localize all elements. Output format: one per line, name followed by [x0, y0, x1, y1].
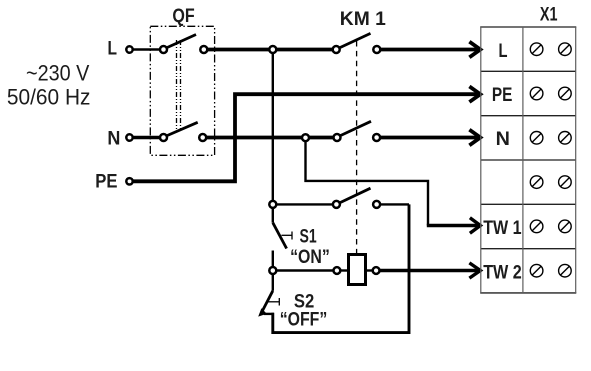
wire junction to aux contact	[276, 203, 335, 205]
breaker QF dash-dot enclosure	[150, 26, 214, 155]
breaker QF pole 2 pivot	[160, 134, 167, 141]
coil KM1 left pin	[334, 267, 341, 274]
wire N branch to TW1	[306, 141, 429, 226]
breaker QF pole 1 blade	[165, 35, 196, 49]
contactor KM1 aux pivot	[333, 201, 340, 208]
contactor KM1 main contact L blade	[338, 33, 371, 48]
junction node S1 aux	[269, 201, 276, 208]
svg-text:S1: S1	[300, 225, 317, 247]
wire L terminal to QF	[132, 48, 161, 50]
wire N terminal to QF	[132, 136, 161, 139]
terminal block X1 frame	[480, 27, 576, 293]
svg-text:N: N	[496, 128, 510, 150]
wire aux contact branch	[380, 203, 409, 205]
wire coil to X1 terminal TW2 with arrow	[380, 269, 479, 272]
breaker QF pole 2 contact	[199, 134, 206, 141]
svg-text:KM 1: KM 1	[340, 8, 386, 30]
wire QF to KM1 (N)	[206, 136, 335, 140]
screw terminals row TW2	[530, 264, 571, 277]
svg-text:TW 1: TW 1	[483, 217, 522, 239]
screw terminals row PE	[530, 87, 571, 100]
contactor KM1 linkage dashed line	[356, 41, 358, 255]
wire L feeder down from junction	[272, 51, 274, 203]
screw terminals row N	[530, 132, 571, 145]
pushbutton S2 seat	[264, 313, 274, 315]
contactor KM1 main contact N blade	[339, 121, 372, 136]
screw terminals row L	[530, 43, 571, 56]
wire junction to coil KM1	[276, 269, 334, 271]
coil KM1 right pin	[373, 267, 380, 274]
terminal circle PE	[126, 178, 132, 184]
screw terminals row 4	[530, 176, 571, 189]
svg-text:PE: PE	[492, 84, 513, 106]
svg-text:L: L	[499, 40, 508, 62]
terminal circle N	[126, 134, 132, 140]
pushbutton S2 actuator	[267, 301, 279, 303]
contactor KM1 aux contact blade	[339, 188, 371, 203]
pushbutton S2 blade tip barb	[258, 308, 267, 316]
contactor KM1 aux throw	[373, 201, 380, 208]
junction node coil branch	[269, 267, 276, 274]
contactor KM1 contact L pivot	[333, 46, 340, 53]
svg-text:50/60 Hz: 50/60 Hz	[7, 85, 91, 110]
wire KM1 to X1 terminal N with arrow	[381, 136, 479, 140]
wire QF to KM1 (L)	[207, 48, 334, 52]
junction node N to TW1 branch	[302, 134, 309, 141]
svg-text:L: L	[108, 38, 118, 60]
breaker QF pole 1 contact	[200, 46, 207, 53]
pushbutton S1 actuator	[282, 234, 293, 236]
breaker QF pole 1 pivot	[160, 46, 167, 53]
pushbutton S1 bottom lead	[272, 251, 274, 269]
breaker QF mechanical linkage	[176, 40, 178, 130]
screw terminals row TW1	[530, 220, 571, 233]
junction node L feeder	[269, 46, 276, 53]
wire PE to X1 terminal PE with arrow	[133, 94, 479, 181]
svg-text:N: N	[107, 127, 120, 149]
pushbutton S2 top lead	[272, 272, 274, 291]
contactor KM1 contact N pivot	[334, 134, 341, 141]
svg-text:~230 V: ~230 V	[26, 60, 90, 85]
svg-text:“OFF”: “OFF”	[280, 308, 328, 330]
pushbutton S1 top lead	[272, 206, 274, 223]
svg-text:PE: PE	[95, 170, 117, 192]
pushbutton S1 blade	[273, 223, 287, 249]
svg-text:X1: X1	[540, 4, 558, 26]
terminal circle L	[126, 46, 132, 52]
contactor KM1 contact L throw	[373, 46, 380, 53]
svg-text:“ON”: “ON”	[290, 246, 330, 268]
breaker QF pole 2 blade	[165, 122, 198, 136]
coil KM1 lead stubs	[340, 269, 350, 271]
coil KM1	[349, 255, 366, 285]
svg-text:TW 2: TW 2	[483, 261, 522, 283]
pushbutton S2 blade	[262, 291, 273, 313]
svg-text:QF: QF	[172, 5, 194, 27]
wire S2 return loop	[273, 204, 409, 332]
wire KM1 to X1 terminal L with arrow	[381, 48, 479, 52]
contactor KM1 contact N throw	[373, 134, 380, 141]
